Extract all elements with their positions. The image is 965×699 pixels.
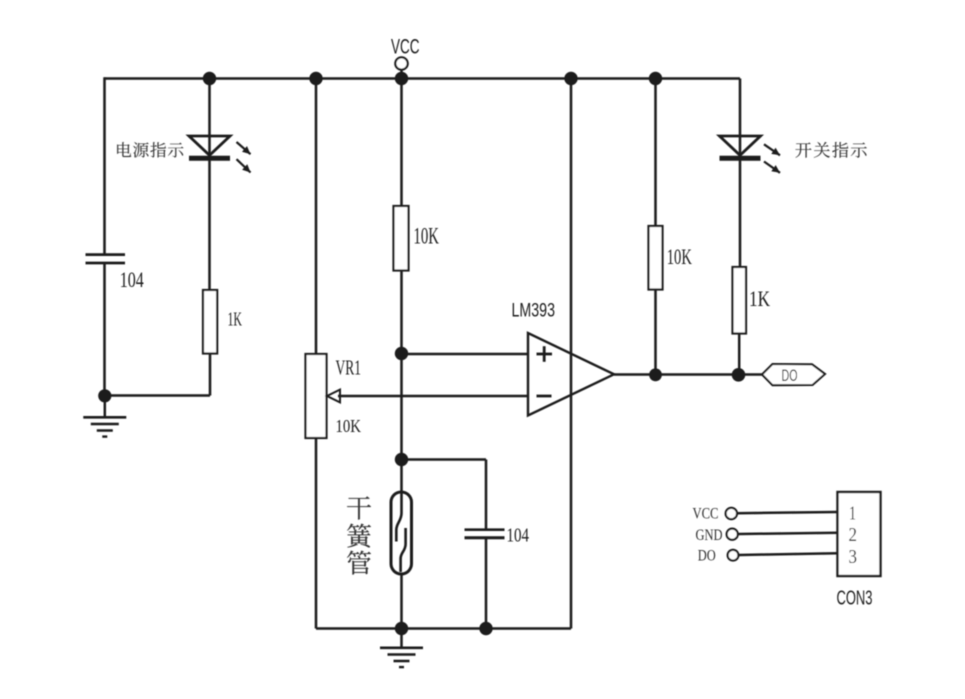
svg-text:1K: 1K	[228, 310, 243, 331]
svg-text:LM393: LM393	[512, 300, 556, 322]
svg-text:10K: 10K	[414, 224, 440, 250]
svg-text:1K: 1K	[749, 286, 770, 311]
svg-text:VCC: VCC	[693, 506, 719, 523]
svg-text:3: 3	[849, 546, 858, 568]
svg-text:VCC: VCC	[391, 36, 420, 59]
svg-text:10K: 10K	[667, 244, 692, 269]
svg-text:GND: GND	[696, 527, 723, 544]
svg-text:DO: DO	[698, 548, 716, 565]
svg-text:104: 104	[507, 526, 530, 547]
svg-text:104: 104	[120, 267, 144, 292]
svg-text:DO: DO	[782, 366, 798, 385]
svg-text:VR1: VR1	[336, 356, 362, 380]
svg-text:10K: 10K	[336, 416, 362, 436]
svg-text:2: 2	[849, 524, 858, 546]
svg-text:CON3: CON3	[837, 588, 873, 610]
svg-text:1: 1	[849, 503, 856, 525]
